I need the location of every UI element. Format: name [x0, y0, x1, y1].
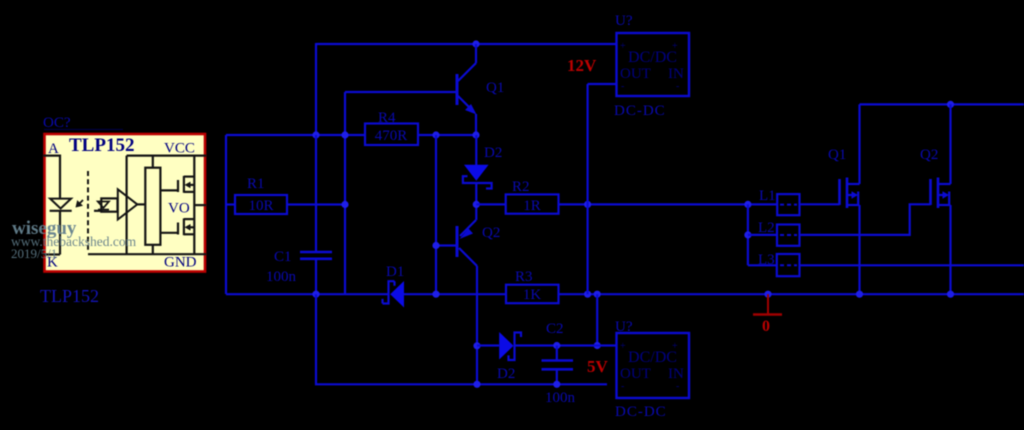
photodiode [94, 202, 109, 211]
LED anode-cathode column [50, 199, 72, 255]
svg-text:TLP152: TLP152 [40, 286, 99, 306]
svg-text:R2: R2 [512, 179, 530, 195]
transistor Q2 [457, 220, 477, 266]
wire L3 row to edge [800, 264, 1024, 266]
svg-text:U?: U? [615, 13, 633, 29]
wire R2 left lead [476, 203, 505, 205]
svg-text:VO: VO [168, 201, 190, 217]
node L2 row [744, 231, 751, 238]
svg-text:DC-DC: DC-DC [614, 103, 666, 119]
svg-text:OUT: OUT [620, 66, 651, 82]
svg-text:470R: 470R [375, 128, 408, 144]
svg-text:C2: C2 [546, 321, 564, 337]
connector L3 [748, 254, 800, 276]
wire OUT- top dcdc [588, 83, 617, 85]
mosfet Q2 [931, 104, 951, 294]
transistor Q1 [457, 44, 477, 135]
wire vertical x345 [344, 92, 346, 294]
node top rail / Q1 collector [472, 40, 479, 47]
wire vertical x597.2 [596, 294, 598, 345]
svg-text:100n: 100n [545, 390, 576, 406]
node R2 row x747.9 [744, 201, 751, 208]
resistor R4 [365, 124, 418, 146]
amplifier triangle [118, 189, 146, 219]
svg-text:Q1: Q1 [828, 147, 846, 163]
capacitor C2 [542, 346, 574, 385]
svg-text:Q1: Q1 [486, 80, 504, 96]
svg-text:-: - [621, 81, 624, 92]
node C2 top [553, 342, 560, 349]
svg-text:+: + [672, 41, 678, 52]
wire top drain rail [860, 103, 1024, 105]
svg-text:C1: C1 [274, 249, 292, 265]
svg-text:R1: R1 [247, 176, 265, 192]
capacitor C1 [300, 135, 332, 294]
opto-coupler U-OC TLP152 body [45, 134, 206, 272]
output mosfet lower [160, 218, 194, 235]
connector L1 [777, 194, 799, 215]
isolation dashed line [87, 171, 89, 253]
node rail ground [764, 291, 771, 298]
inner GND rail [88, 253, 206, 255]
svg-text:D1: D1 [386, 264, 404, 280]
wire OC underline [44, 129, 123, 131]
node bottom row x477 [473, 381, 480, 388]
node drain rail x950.5 [947, 101, 954, 108]
pin K stub [44, 253, 61, 255]
inner right rail / VO stub [194, 156, 206, 255]
node row A x316 [312, 131, 319, 138]
node rail x587.6 [584, 291, 591, 298]
svg-text:1K: 1K [523, 287, 542, 303]
svg-text:+: + [620, 341, 626, 352]
wire Q2 base [436, 244, 456, 246]
wire R1 left lead [226, 203, 235, 205]
wire R1 right lead [287, 203, 345, 205]
node row A x436 [432, 131, 439, 138]
wire Q2 collector vertical [476, 266, 478, 384]
diode D1 (zener) [383, 281, 405, 308]
svg-text:DC-DC: DC-DC [615, 404, 667, 420]
inner VCC rail [127, 155, 206, 157]
svg-text:D2: D2 [497, 366, 515, 382]
wire C2 row right [557, 344, 617, 346]
node rail Q1 source [856, 291, 863, 298]
svg-text:L2: L2 [758, 220, 775, 236]
node R1 row x345 [341, 201, 348, 208]
node rail x316 [312, 291, 319, 298]
resistor R3 [506, 285, 559, 304]
wire 12V vertical x587.6 [586, 84, 588, 294]
svg-text:GND: GND [164, 255, 197, 271]
svg-text:U?: U? [615, 319, 633, 335]
wire row A left [226, 134, 365, 136]
resistor R2 [506, 194, 559, 213]
svg-text:+: + [620, 41, 626, 52]
wire row A right [418, 134, 476, 136]
svg-text:-: - [676, 381, 679, 392]
svg-text:100n: 100n [266, 269, 297, 285]
pin A stub [44, 156, 61, 199]
node R2 row x587.6 [584, 201, 591, 208]
node rail Q2 source [947, 291, 954, 298]
svg-text:+: + [672, 341, 678, 352]
node C2 row x477 [473, 342, 480, 349]
svg-text:TLP152: TLP152 [69, 135, 134, 156]
svg-text:IN: IN [668, 366, 684, 382]
svg-text:IN: IN [668, 66, 684, 82]
LED emission arrow [76, 200, 84, 208]
node rail x597.2 [594, 291, 601, 298]
node bottom row x556.8 [553, 381, 560, 388]
diode D2 lower (zener) [499, 332, 557, 360]
wire C2 row left [477, 344, 499, 346]
svg-text:D2: D2 [484, 145, 502, 161]
svg-text:DC/DC: DC/DC [628, 349, 677, 366]
wire vertical x436 [435, 135, 437, 294]
connector L2 [748, 225, 800, 246]
svg-text:0: 0 [762, 318, 770, 335]
dcdc module U? top [617, 33, 690, 96]
wire left loop vertical x226 [225, 135, 227, 294]
svg-text:Q2: Q2 [482, 225, 500, 241]
diode D2 upper (zener) [463, 135, 492, 220]
output mosfet upper [160, 176, 194, 193]
svg-text:Q2: Q2 [920, 147, 938, 163]
wire rail left [226, 293, 389, 295]
svg-text:2019/5/1: 2019/5/1 [11, 246, 57, 261]
svg-text:R3: R3 [515, 269, 533, 285]
wire L2 jog to Q2 gate [800, 204, 931, 235]
node row A x345 [341, 131, 348, 138]
wire R2 row to L1 [559, 203, 778, 205]
svg-text:DC/DC: DC/DC [628, 49, 677, 66]
svg-text:1R: 1R [523, 198, 541, 214]
node C2 row x597.2 [594, 342, 601, 349]
inner left vertical [125, 156, 127, 255]
svg-text:-: - [676, 81, 679, 92]
dcdc module U? bottom [617, 333, 690, 398]
svg-text:VCC: VCC [164, 141, 195, 157]
driver block [145, 156, 160, 255]
wire left vertical x316 upper [315, 43, 317, 135]
svg-text:10R: 10R [248, 198, 273, 214]
node R2 tap [473, 201, 480, 208]
node row A x476 [472, 131, 479, 138]
resistor R1 [235, 195, 287, 214]
svg-text:OC?: OC? [43, 115, 71, 131]
wire L1 to Q1 gate [800, 203, 840, 205]
node rail x436 [432, 291, 439, 298]
node Q2 base [432, 242, 439, 249]
svg-text:-: - [621, 381, 624, 392]
svg-text:OUT: OUT [620, 366, 651, 382]
svg-text:L1: L1 [759, 188, 776, 204]
mosfet Q1 [840, 104, 860, 294]
svg-text:L3: L3 [758, 252, 775, 268]
wire rail mid [404, 293, 506, 295]
wire L column vertical [747, 204, 749, 265]
wire rail right [559, 293, 1024, 295]
svg-text:R4: R4 [378, 110, 396, 126]
svg-text:12V: 12V [567, 56, 597, 75]
wire top rail 12V [316, 43, 616, 45]
photodiode square [101, 198, 117, 211]
ground symbol 0 [753, 294, 782, 314]
wire Q1 base [345, 91, 456, 93]
wire bottom row [316, 294, 607, 384]
svg-text:5V: 5V [587, 357, 609, 376]
